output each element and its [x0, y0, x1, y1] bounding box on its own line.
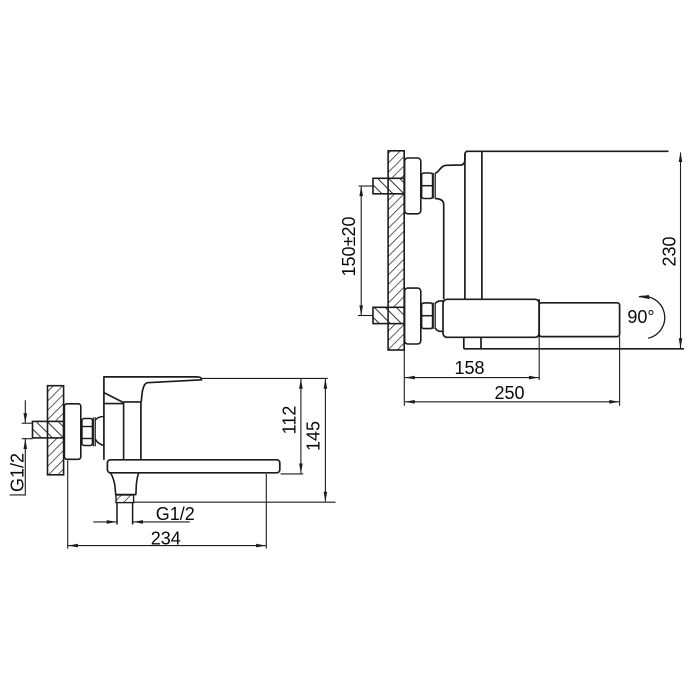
outlet tailpiece (front view)	[117, 502, 133, 524]
dim 158 line	[405, 377, 539, 379]
faucet body block (front view)	[104, 376, 141, 460]
dim G1/2 bottom right arrow and leader	[133, 520, 190, 524]
svg-text:250: 250	[494, 383, 524, 403]
joint line valve/spout (top view)	[538, 299, 540, 337]
dim 158 arrow left	[405, 376, 415, 380]
extension line upper pipe centre	[359, 185, 373, 187]
faucet body slab inner edge (top view)	[481, 151, 483, 299]
dim 234 arrow right	[256, 544, 266, 548]
svg-text:90°: 90°	[627, 307, 654, 327]
dim 234 arrow left	[68, 544, 78, 548]
upper washer (top view)	[433, 173, 435, 199]
dim G1/2 bottom left arrow	[93, 520, 117, 524]
extension line lower pipe centre	[358, 315, 373, 317]
svg-text:112: 112	[279, 406, 299, 435]
dim 145 line	[324, 379, 326, 502]
extension line handle top (front view)	[201, 377, 327, 379]
dim 112 arrow up	[299, 379, 303, 389]
label G1/2 left underline	[10, 494, 26, 496]
upper hex nut (top view)	[422, 173, 433, 199]
extension line pipe bottom (front view)	[22, 438, 33, 440]
upper escutcheon (top view)	[405, 158, 421, 214]
escutcheon (front view)	[64, 404, 80, 460]
extension line wall face (top view)	[403, 351, 405, 406]
dim G1/2 left arrow down	[24, 413, 28, 423]
extension line outlet shoulder (front view)	[134, 501, 336, 503]
extension line spout joint (top view)	[538, 337, 540, 380]
hex nut (front view)	[82, 419, 93, 446]
upper inlet pipe (top view)	[373, 178, 404, 194]
body top edge / 230 extension line (top view)	[466, 150, 669, 152]
dim G1/2 left arrow up	[24, 439, 28, 449]
wall plate hatching (front view, hole at pipe crossing)	[48, 386, 64, 475]
dim 145 arrow down	[324, 492, 328, 502]
wall plate outline (front view)	[48, 386, 64, 475]
extension line spout end (top view)	[619, 337, 621, 406]
svg-text:145: 145	[304, 421, 324, 451]
wall plate outline (top view)	[388, 151, 404, 350]
dim 150 arrow up	[359, 186, 363, 196]
dim 230 arrow down	[679, 338, 683, 348]
lever handle (front view)	[104, 377, 201, 403]
dim 145 arrow up	[324, 379, 328, 389]
lower inlet pipe (top view)	[373, 307, 404, 323]
extension line spout end (front view)	[265, 474, 267, 549]
spout barrel (top view)	[539, 303, 619, 337]
dim 230 line	[680, 153, 682, 349]
dim 112 arrow down	[299, 464, 303, 474]
svg-text:150±20: 150±20	[339, 217, 359, 277]
dim 250 arrow right	[609, 400, 619, 404]
lower washer (top view)	[433, 303, 435, 330]
lower escutcheon (top view)	[405, 288, 421, 344]
outlet nipple G1/2 hatched (front view)	[116, 495, 134, 503]
svg-text:230: 230	[660, 236, 680, 266]
wall plate hatching (top view, holes at pipe crossings)	[388, 151, 404, 350]
dim 150+-20 line	[360, 186, 362, 316]
svg-text:158: 158	[454, 358, 484, 378]
extension line pipe top (front view)	[22, 422, 33, 424]
dim 150 arrow down	[359, 305, 363, 315]
dim G1/2 left upper line	[24, 400, 26, 423]
valve body barrel (top view)	[443, 299, 539, 337]
dim 234 line	[68, 545, 266, 547]
lower connection stub (top view)	[435, 301, 443, 331]
body bottom edge / 230 extension line (top view)	[464, 348, 684, 350]
extension line slab bottom right (front view)	[281, 473, 304, 475]
spout deck slab (front view)	[107, 460, 279, 473]
90 degree swivel arc	[639, 296, 665, 338]
svg-text:234: 234	[151, 528, 181, 548]
inlet pipe (front view)	[33, 421, 64, 438]
faucet body slab left edge (top view)	[464, 154, 466, 299]
upper eccentric boss profile (top view)	[435, 151, 468, 299]
lower hex nut (top view)	[422, 303, 433, 329]
dim 112 line	[300, 379, 302, 474]
extension line escutcheon face (front view)	[67, 461, 69, 549]
arc arrowhead top	[639, 295, 650, 299]
dim 250 line	[405, 401, 619, 403]
dim 230 arrow up	[679, 152, 683, 162]
neck between nut and body (front view)	[95, 417, 103, 446]
svg-text:G1/2: G1/2	[156, 504, 195, 524]
dim G1/2 left lower line	[24, 439, 26, 496]
dim 250 arrow left	[405, 400, 415, 404]
svg-text:G1/2: G1/2	[7, 453, 27, 492]
dim 158 arrow right	[529, 376, 539, 380]
bottom step under valve (top view)	[464, 337, 481, 349]
outlet funnel (front view)	[111, 473, 139, 495]
washer (front view)	[93, 417, 95, 446]
